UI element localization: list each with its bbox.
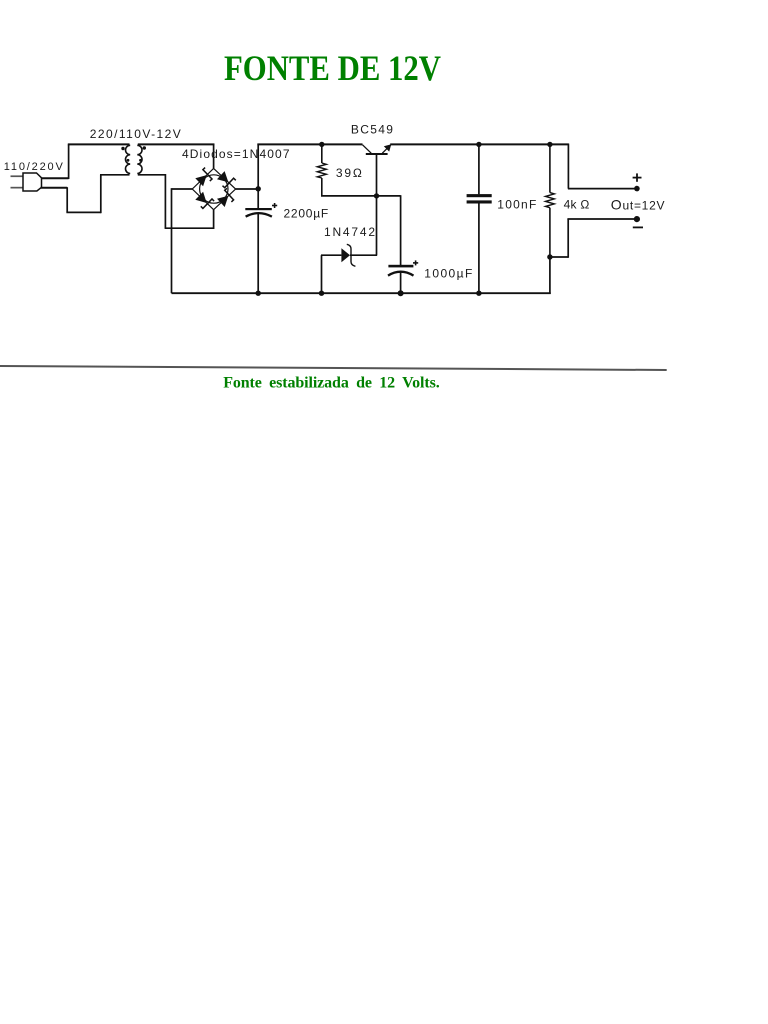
- diode D4 (lower-right, 1N4007): [217, 188, 234, 207]
- wire AC2 riser to bridge bottom: [213, 210, 215, 229]
- node junction ground/C2: [476, 291, 481, 296]
- diode D3 (lower-left, 1N4007): [195, 192, 214, 209]
- capacitor C1 2200uF bottom plate (curved): [246, 213, 272, 217]
- transformer phase dot right: [143, 146, 146, 149]
- wire bridge plus to filter node: [236, 188, 259, 190]
- wire out+ horizontal: [568, 188, 637, 190]
- output minus sign: [633, 227, 643, 229]
- bridge rectifier frame: [192, 168, 235, 209]
- svg-text:O: O: [611, 197, 622, 213]
- wire bridge minus to left: [172, 188, 193, 190]
- output terminal -: [634, 216, 640, 222]
- node junction base/zener: [374, 193, 379, 198]
- zener diode DZ1 1N4742: [321, 244, 377, 266]
- node junction rail / C2: [476, 142, 481, 147]
- node junction ground/C3: [398, 290, 404, 296]
- node junction rail / R2: [547, 142, 552, 147]
- wire R1 bottom horizontal to C3: [321, 195, 401, 197]
- wire secondary bottom to drop: [138, 174, 166, 176]
- wire primary bottom to coil: [100, 174, 130, 176]
- wire primary top rail: [68, 143, 130, 145]
- svg-text:FONTE DE 12V: FONTE DE 12V: [224, 48, 441, 88]
- capacitor C2 100nF top plate: [467, 194, 492, 197]
- svg-text:39Ω: 39Ω: [336, 166, 362, 180]
- wire primary bottom drop: [66, 187, 68, 212]
- AC plug P1: [11, 173, 42, 191]
- wire primary top riser: [68, 144, 70, 179]
- wire C2 bottom to ground rail: [478, 203, 480, 293]
- transformer T1 primary winding: [125, 145, 130, 173]
- capacitor C1 2200uF top plate: [245, 208, 271, 210]
- node junction ground/zener: [319, 291, 324, 296]
- wire out+ corner drop: [567, 144, 569, 189]
- wire zener anode drop to ground rail: [321, 255, 323, 293]
- wire out- horizontal: [567, 218, 637, 220]
- svg-text:BC549: BC549: [351, 123, 393, 137]
- transformer mid mark left: [127, 159, 130, 162]
- capacitor C1 polarity plus: [272, 203, 277, 208]
- wire bridge minus drop to ground rail: [171, 188, 173, 293]
- svg-text:ut=12V: ut=12V: [623, 199, 665, 213]
- node junction bridge+ / C1: [256, 186, 261, 191]
- wire C3 bottom to ground rail: [400, 273, 402, 294]
- svg-text:2200µF: 2200µF: [284, 206, 329, 220]
- ground rail (bottom): [172, 292, 551, 294]
- wire plug top cord: [42, 177, 69, 179]
- wire zener node drop to C3: [400, 195, 402, 265]
- svg-text:220/110V-12V: 220/110V-12V: [90, 127, 181, 141]
- capacitor C2 100nF bottom plate: [467, 200, 492, 203]
- wire out- horizontal from R2: [550, 256, 568, 258]
- svg-text:100nF: 100nF: [497, 197, 536, 211]
- transformer T1 secondary winding: [137, 145, 142, 173]
- output plus sign: [633, 173, 642, 181]
- wire primary bottom riser: [100, 175, 102, 213]
- transformer phase dot left: [121, 147, 124, 150]
- separator line: [0, 366, 667, 370]
- wire AC1 drop to bridge top: [213, 144, 215, 169]
- wire DC+ node vertical (rail to cap top): [257, 144, 259, 209]
- capacitor C3 1000uF bottom plate (curved): [388, 272, 414, 276]
- transformer mid mark right: [139, 159, 142, 162]
- wire secondary top rail: [138, 143, 215, 145]
- wire collector rail: [257, 143, 362, 145]
- resistor R2 4k: [546, 144, 555, 257]
- wire primary bottom horizontal: [66, 211, 100, 213]
- transistor Q1 BC549: [363, 144, 392, 154]
- wire C2 top drop: [478, 144, 480, 195]
- wire base drop to zener node: [376, 155, 378, 256]
- svg-text:1000µF: 1000µF: [424, 267, 472, 281]
- capacitor C3 polarity plus: [413, 260, 418, 265]
- svg-text:Fonte estabilizada de 12 Volts: Fonte estabilizada de 12 Volts.: [223, 374, 440, 391]
- wire emitter rail: [390, 143, 569, 145]
- capacitor C3 1000uF top plate: [388, 265, 413, 268]
- node junction R2 bottom / out-: [547, 254, 552, 259]
- diode D1 (upper-left, 1N4007): [195, 168, 212, 187]
- wire R2 bottom to ground rail: [549, 257, 551, 294]
- node junction rail / R1: [319, 142, 324, 147]
- node junction ground/C1: [256, 291, 261, 296]
- wire C1 bottom to ground rail: [257, 214, 259, 294]
- svg-text:4Diodos=1N4007: 4Diodos=1N4007: [182, 147, 290, 161]
- wire secondary bottom drop: [164, 174, 166, 228]
- wire AC2 horizontal: [165, 227, 214, 229]
- svg-text:110/220V: 110/220V: [4, 161, 64, 173]
- diode D2 (upper-right, 1N4007): [217, 171, 236, 188]
- output terminal +: [634, 186, 640, 192]
- wire out- riser: [567, 219, 569, 258]
- resistor R1 39ohm: [317, 144, 326, 197]
- wire plug bottom cord: [41, 187, 68, 189]
- svg-text:4k Ω: 4k Ω: [564, 198, 590, 212]
